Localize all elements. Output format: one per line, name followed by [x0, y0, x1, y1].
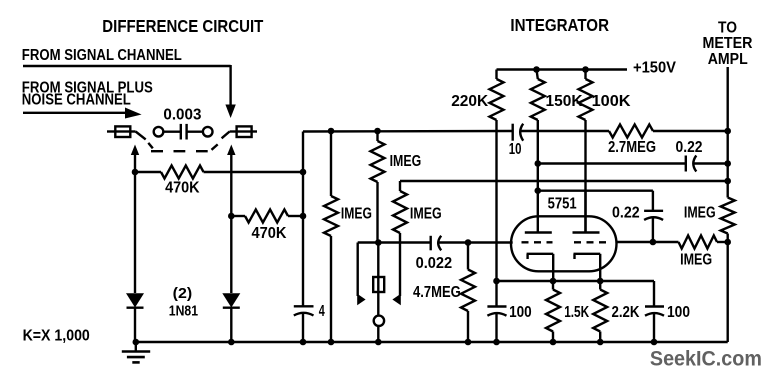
switch S1 contact circle A — [154, 127, 164, 137]
label: FROM SIGNAL CHANNEL — [22, 47, 182, 64]
resistor 470K (upper) — [135, 166, 303, 179]
tube V1 right cathode — [574, 254, 601, 281]
capacitor 4 — [294, 306, 314, 342]
tube V1 left cathode — [527, 254, 554, 281]
label: FROM SIGNAL PLUS NOISE CHANNEL — [22, 80, 153, 109]
svg-text:0.003: 0.003 — [163, 106, 201, 123]
svg-text:0.22: 0.22 — [612, 204, 640, 221]
svg-text:2.7MEG: 2.7MEG — [608, 139, 656, 156]
label: (2) 1N81 — [169, 285, 198, 320]
label: 150K — [546, 93, 583, 110]
svg-text:0.22: 0.22 — [676, 139, 703, 156]
label: 1MEG (a) — [341, 206, 372, 223]
wire: from signal plus noise channel with right arrow — [23, 108, 142, 119]
node: junction right wire / 470K upper end — [300, 169, 307, 176]
node: 150K / 0.22 line — [535, 160, 542, 167]
switch S1 contact circle B — [203, 127, 213, 137]
switch S1 left arm — [130, 132, 145, 140]
wire: coupling line y=190.7 — [538, 191, 653, 211]
label: 10 — [509, 141, 522, 158]
node: 0.022 / 4.7MEG junction — [465, 239, 472, 246]
tube V1 right plate — [573, 191, 600, 233]
svg-text:5751: 5751 — [548, 196, 577, 213]
label: 4 — [319, 303, 325, 320]
svg-text:100: 100 — [509, 304, 532, 321]
svg-text:SeekIC.com: SeekIC.com — [650, 347, 762, 371]
wire: left pole up arrow — [131, 145, 139, 173]
capacitor 100 (right) — [645, 307, 664, 343]
node: 1.5K on ground bus — [550, 339, 557, 346]
capacitor 0.22 (lower) — [644, 211, 663, 242]
node: chopper on ground bus — [375, 339, 382, 346]
svg-text:220K: 220K — [451, 93, 488, 110]
svg-text:IMEG: IMEG — [684, 204, 716, 221]
svg-text:0.022: 0.022 — [416, 255, 453, 272]
node: left diode to ground rail — [133, 339, 140, 346]
svg-text:10: 10 — [509, 141, 522, 158]
svg-text:4.7MEG: 4.7MEG — [413, 284, 461, 301]
svg-text:IMEG: IMEG — [341, 206, 372, 223]
label: 220K — [451, 93, 488, 110]
resistor 2.7MEG — [609, 125, 728, 138]
label: 100K — [592, 93, 631, 110]
wire: ground bus (bottom rail) — [136, 341, 728, 343]
resistor 1MEG (c) — [393, 181, 407, 233]
capacitor 10 — [513, 124, 609, 141]
label: 1MEG (d) — [684, 204, 716, 221]
svg-text:DIFFERENCE CIRCUIT: DIFFERENCE CIRCUIT — [102, 16, 263, 36]
node: 100(left) on ground bus — [493, 339, 500, 346]
node: 150K top — [533, 66, 540, 73]
node: junction right pole / 470K lower — [228, 213, 235, 220]
svg-text:470K: 470K — [165, 179, 200, 196]
svg-text:(2): (2) — [173, 285, 193, 302]
resistor 470K (lower) — [231, 210, 303, 223]
node: feedback line to meter bus — [724, 178, 731, 185]
wire: left pole to diode — [134, 172, 136, 293]
svg-text:470K: 470K — [252, 225, 287, 242]
label: K=X 1,000 — [23, 328, 90, 345]
capacitor 0.22 (upper) — [686, 156, 728, 172]
tube V1 right grid (dashed) — [574, 241, 607, 243]
wire: feedback line y=181 — [400, 180, 728, 182]
chopper reed — [373, 243, 384, 317]
resistor 1MEG (b) — [371, 131, 385, 243]
node: left cathode junction — [550, 278, 557, 285]
node: right cathode junction — [597, 278, 604, 285]
node: 1MEG(a) on ground bus — [328, 339, 335, 346]
svg-text:IMEG: IMEG — [680, 252, 712, 269]
label: 1MEG (e) — [680, 252, 712, 269]
resistor 1MEG (a) — [324, 131, 338, 342]
svg-text:NOISE CHANNEL: NOISE CHANNEL — [22, 91, 131, 108]
label: 100 (left) — [509, 304, 532, 321]
label: 0.22 (lower) — [612, 204, 640, 221]
node: junction vertical wire / 470K lower — [300, 213, 307, 220]
node: 0.22 lower / grid line — [650, 239, 657, 246]
resistor 100K — [579, 70, 593, 233]
svg-text:100: 100 — [667, 304, 690, 321]
resistor 4.7MEG — [461, 243, 475, 343]
resistor 220K — [490, 70, 504, 132]
svg-text:150K: 150K — [546, 93, 583, 110]
node: 100(right) on ground bus — [651, 339, 658, 346]
title: DIFFERENCE CIRCUIT — [102, 16, 263, 36]
label: 1.5K — [564, 304, 589, 321]
resistor 2.2K — [593, 281, 607, 342]
switch S1 right terminal box — [237, 126, 257, 137]
node: 2.7MEG to meter bus — [724, 128, 731, 135]
wire: switch output vertical — [302, 132, 304, 307]
capacitor 0.022 — [431, 236, 513, 251]
resistor 150K — [531, 70, 545, 191]
node: 4-cap on ground bus — [300, 339, 307, 346]
tube V1 left grid (dashed) — [522, 241, 553, 243]
diode 1N81 (left) — [126, 293, 144, 342]
node: 1MEG(b) top — [374, 128, 381, 135]
svg-text:IMEG: IMEG — [410, 206, 442, 223]
wire: chopper right contact arm — [392, 233, 400, 305]
label: 0.022 — [416, 255, 453, 272]
label: 2.2K — [612, 304, 640, 321]
tube V1 left plate — [525, 191, 552, 233]
wire: 220K lower branch — [495, 131, 497, 281]
title: INTEGRATOR — [510, 15, 609, 35]
label: 0.003 — [163, 106, 201, 123]
switch S1 ganged linkage (dashed) — [148, 143, 217, 151]
node: right diode on ground bus — [228, 339, 235, 346]
label: 2.7MEG — [608, 139, 656, 156]
node: cathode line left — [493, 278, 500, 285]
svg-text:+150V: +150V — [633, 60, 676, 77]
wire: plate line y=163.5 — [538, 162, 686, 164]
node: 100K top — [582, 66, 589, 73]
capacitor 0.003 — [163, 124, 203, 140]
wire: cathode line — [497, 281, 655, 307]
switch S1 left terminal box — [107, 126, 130, 137]
label: 0.22 (upper) — [676, 139, 703, 156]
svg-text:K=X 1,000: K=X 1,000 — [23, 328, 90, 345]
svg-text:1.5K: 1.5K — [564, 304, 589, 321]
diode 1N81 (right) — [222, 293, 240, 342]
node: chopper reed junction — [375, 239, 382, 246]
node: 150K / grid coupling line — [535, 187, 542, 194]
label: 5751 — [548, 196, 577, 213]
node: 0.22 upper to meter bus — [724, 160, 731, 167]
label: 470K (upper) — [165, 179, 200, 196]
wire: chopper left contact arm — [357, 243, 378, 306]
tube V1 5751 envelope — [511, 216, 617, 271]
wire: +150V rail — [497, 68, 628, 70]
wire: from signal channel with down arrow — [23, 65, 236, 118]
label: 1MEG (c) — [410, 206, 442, 223]
svg-text:4: 4 — [319, 303, 325, 320]
svg-text:100K: 100K — [592, 93, 631, 110]
svg-text:FROM SIGNAL CHANNEL: FROM SIGNAL CHANNEL — [22, 47, 182, 64]
wire: grid line to 0.022 — [378, 241, 430, 243]
label: 470K (lower) — [252, 225, 287, 242]
chopper reed terminal — [374, 316, 384, 342]
svg-text:AMPL: AMPL — [708, 51, 748, 68]
ground symbol — [122, 342, 150, 362]
node: 4.7MEG on ground bus — [465, 339, 472, 346]
label: TO METER AMPL — [703, 20, 753, 68]
node: junction left pole / 470K — [132, 169, 139, 176]
wire: right pole up arrow — [227, 145, 235, 217]
node: 1MEG(a) top — [328, 128, 335, 135]
label: 100 (right) — [667, 304, 690, 321]
node: 2.2K on ground bus — [597, 339, 604, 346]
switch S1 right arm — [222, 132, 237, 139]
svg-text:METER: METER — [703, 35, 753, 52]
svg-text:1N81: 1N81 — [169, 303, 198, 320]
svg-text:INTEGRATOR: INTEGRATOR — [510, 15, 609, 35]
svg-text:2.2K: 2.2K — [612, 304, 640, 321]
label: 1MEG (b) — [390, 153, 422, 170]
wire: to meter ampl bus — [727, 67, 729, 342]
label: +150V — [633, 60, 676, 77]
capacitor 100 (left) — [487, 281, 506, 342]
svg-text:TO: TO — [718, 20, 737, 37]
svg-text:IMEG: IMEG — [390, 153, 422, 170]
watermark: SeekIC.com — [650, 347, 762, 371]
resistor 1MEG (d) vertical — [721, 181, 735, 242]
wire: right grid line — [617, 241, 679, 243]
node: 1MEG(e) to meter bus — [724, 239, 731, 246]
resistor 1.5K — [546, 281, 560, 342]
wire: right pole to diode — [230, 216, 232, 293]
label: 4.7MEG — [413, 284, 461, 301]
resistor 1MEG (e) horizontal — [679, 236, 728, 249]
wire: integrator input bus — [303, 130, 513, 133]
